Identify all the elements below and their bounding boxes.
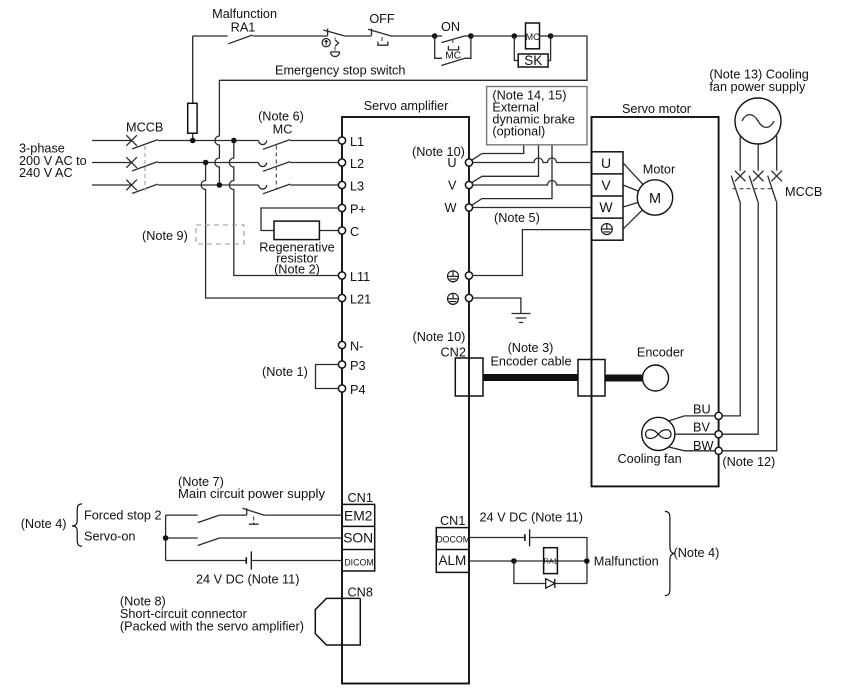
svg-text:MCCB: MCCB (785, 185, 822, 199)
label: (Note 7) Main circuit power supply (178, 475, 326, 501)
wire: dynamic brake tap W (472, 145, 552, 205)
terminal U (447, 156, 472, 170)
svg-text:ON: ON (441, 20, 460, 34)
svg-text:(Note 4): (Note 4) (674, 546, 720, 560)
wire: terminal block to motor (W) (623, 203, 638, 208)
svg-text:24 V DC (Note 11): 24 V DC (Note 11) (480, 510, 583, 524)
svg-text:(Note 9): (Note 9) (142, 229, 188, 243)
jumper P3-P4 (316, 365, 339, 389)
svg-text:(optional): (optional) (492, 125, 545, 139)
node: control return on L3 (217, 182, 223, 188)
svg-text:Cooling fan: Cooling fan (618, 452, 682, 466)
svg-text:MC: MC (445, 51, 461, 62)
wire (220, 514, 247, 516)
wire: DICOM from rail (166, 560, 247, 562)
wire: EM2 from rail (166, 514, 198, 516)
terminal N- (338, 340, 363, 354)
svg-text:(Note 2): (Note 2) (274, 262, 320, 276)
switch: forced stop contact (198, 515, 220, 523)
svg-text:V: V (601, 177, 611, 193)
battery 24 V DC (input side) (246, 551, 251, 569)
surge absorber SK (514, 36, 550, 68)
wire: V phase to motor (hops brake lead) (473, 181, 592, 186)
terminal L2 (338, 157, 364, 171)
node: L21 feed tap on L2 (203, 160, 209, 166)
connector: encoder cable junction (578, 360, 605, 397)
node: junction left of ON (432, 33, 438, 39)
node: junction right of MC coil (548, 33, 554, 39)
svg-text:Malfunction: Malfunction (212, 7, 277, 21)
terminal PE2 (amplifier) (448, 293, 473, 304)
node: L11 feed tap on L1 (231, 138, 237, 144)
terminal BU (693, 402, 722, 419)
svg-text:P4: P4 (350, 383, 366, 397)
terminal L3 (338, 180, 364, 194)
wire: input rail (165, 515, 167, 560)
contact MC (self-holding auxiliary) (435, 36, 471, 66)
circuit breaker MCCB pole 3 + wire (92, 184, 132, 186)
switch: servo-on contact (198, 538, 220, 546)
svg-text:W: W (445, 201, 457, 215)
svg-text:(Note 5): (Note 5) (494, 211, 540, 225)
wire: terminal block to motor (U) (623, 163, 643, 185)
terminal P3 (338, 359, 365, 373)
encoder cable (amplifier side) (483, 374, 578, 381)
wire: MC coil to right node (540, 35, 551, 37)
label: (Note 10) CN2 (413, 330, 466, 360)
svg-text:L2: L2 (350, 157, 364, 171)
wire: fan to BV (675, 433, 715, 435)
magnetic contactor MC pole 1 + wire to L1 (259, 141, 267, 145)
wire: L21 feed from L2 (hops L3) (201, 163, 342, 299)
wire: terminal block to motor (V) (623, 185, 639, 191)
brace (left group) (72, 504, 82, 546)
svg-text:L21: L21 (350, 293, 371, 307)
node: ALM branch left (511, 558, 517, 564)
motor M (637, 163, 676, 216)
svg-text:EM2: EM2 (344, 509, 372, 524)
wire: dynamic brake tap U (472, 145, 524, 160)
label: (Note 13) Cooling fan power supply (709, 68, 808, 95)
magnetic contactor MC pole 2 + wire to L2 (259, 163, 267, 167)
wire: ALM (469, 560, 587, 562)
brace (right group) (665, 511, 675, 595)
svg-text:Encoder: Encoder (637, 346, 685, 360)
svg-text:240 V AC: 240 V AC (19, 166, 73, 180)
motor terminal block (592, 152, 624, 240)
svg-text:W: W (599, 199, 613, 215)
wire: L11 feed from L1 (hops L2, L3) (229, 141, 342, 276)
svg-text:DOCOM: DOCOM (436, 535, 470, 545)
wire: DOCOM (469, 537, 525, 539)
terminal BW (693, 439, 722, 454)
wire: fan supply phase 2 (757, 144, 759, 171)
label: Malfunction RA1 (212, 7, 277, 34)
label: (Note 6) MC (258, 110, 304, 137)
forced stop button (NC) (243, 508, 265, 524)
svg-text:(Note 12): (Note 12) (722, 455, 775, 469)
terminal L21 (338, 293, 371, 307)
circuit breaker MCCB (fan) pole 3 (722, 171, 782, 451)
battery 24 V DC (output side) (525, 529, 530, 546)
svg-text:Motor: Motor (643, 163, 676, 177)
servo motor enclosure (592, 102, 719, 486)
encoder cable (motor side) (605, 375, 643, 382)
svg-text:RA1: RA1 (544, 559, 558, 566)
circuit breaker MCCB (fan) pole 2 (722, 171, 763, 435)
svg-text:BV: BV (693, 421, 710, 435)
svg-text:CN1: CN1 (348, 491, 373, 505)
diode (546, 579, 555, 588)
wire: fan to BW (669, 447, 715, 451)
emergency stop switch (322, 29, 344, 57)
wire: fan supply phase 3 (776, 136, 778, 171)
wire: to DICOM terminal (251, 560, 342, 562)
node: junction left of MC coil (512, 33, 518, 39)
circuit breaker MCCB pole 2 + wire (92, 162, 132, 164)
svg-text:SK: SK (524, 53, 542, 68)
ground (earth) (512, 314, 531, 323)
circuit breaker MCCB pole 1 + wire (92, 140, 132, 142)
svg-text:(Note 10): (Note 10) (413, 330, 466, 344)
svg-text:ALM: ALM (439, 553, 467, 568)
svg-text:P+: P+ (350, 203, 366, 217)
wire: DOCOM to malfunction node (530, 538, 587, 584)
fan MCCB pole link (dashed) (733, 188, 773, 190)
wire: RA1 to emergency stop switch (253, 35, 328, 37)
wire: dynamic brake tap V (472, 145, 539, 183)
svg-text:L1: L1 (350, 135, 364, 149)
connector CN1 (input) (342, 504, 375, 571)
connector CN2 (455, 358, 483, 396)
svg-text:N-: N- (350, 340, 363, 354)
terminal PE1 (amplifier) (448, 271, 473, 282)
svg-text:(Note 6): (Note 6) (258, 110, 304, 124)
terminal V (448, 179, 473, 193)
wire: control line from fuse branch to RA1 contact (193, 35, 228, 37)
node: junction right of ON (468, 33, 474, 39)
svg-text:(Note 3): (Note 3) (508, 341, 554, 355)
svg-text:MCCB: MCCB (126, 121, 163, 135)
MCCB pole link (dashed) (144, 146, 146, 191)
wire: terminal block to motor (PE) (623, 210, 642, 229)
svg-text:U: U (601, 155, 611, 171)
svg-text:fan power supply: fan power supply (709, 80, 806, 94)
svg-text:Encoder cable: Encoder cable (490, 355, 571, 369)
relay contact RA1 (228, 35, 252, 44)
terminal block PE symbol (601, 224, 612, 235)
servo amplifier enclosure (342, 99, 469, 684)
node: fuse tap on L1 (190, 138, 196, 144)
wire: fan supply phase 1 (739, 136, 741, 171)
connector CN1 (output) (436, 528, 470, 573)
terminal L11 (338, 270, 370, 284)
label: 3-phase 200 V AC to 240 V AC (19, 142, 87, 180)
svg-text:(Packed with the servo amplifi: (Packed with the servo amplifier) (120, 619, 304, 633)
svg-text:Forced stop 2: Forced stop 2 (84, 508, 162, 522)
cooling fan (618, 417, 682, 466)
svg-text:(Note 10): (Note 10) (412, 145, 465, 159)
terminal BV (693, 421, 722, 438)
wire: SON from rail (166, 537, 198, 539)
magnetic contactor MC pole 3 + wire to L3 (259, 185, 267, 189)
pushbutton OFF (NC) (368, 12, 395, 45)
wire: emergency stop to OFF button (344, 35, 372, 37)
wire: control return vertical (hops L1, L2, joins L3) (215, 80, 220, 185)
terminal W (445, 201, 473, 215)
svg-text:CN8: CN8 (348, 586, 373, 600)
svg-text:Emergency stop switch: Emergency stop switch (275, 64, 405, 78)
svg-text:RA1: RA1 (231, 20, 256, 34)
wire: PE2 to earth (473, 298, 521, 314)
svg-text:MC: MC (526, 32, 540, 42)
pushbutton ON (NO) (435, 20, 471, 50)
wire: to SON terminal (220, 537, 343, 539)
svg-text:Servo motor: Servo motor (622, 102, 692, 116)
svg-text:L11: L11 (350, 270, 370, 284)
svg-text:V: V (448, 179, 457, 193)
fuse (188, 36, 197, 141)
coil MC (contactor coil) (526, 23, 541, 49)
wire: diode to node (555, 583, 587, 585)
svg-text:MC: MC (273, 123, 293, 137)
svg-text:C: C (350, 225, 359, 239)
wire: to MC coil (471, 35, 526, 37)
node: SON rail junction (163, 535, 169, 541)
connector CN8 (short-circuit connector) (315, 598, 360, 645)
label: (Note 8) Short-circuit connector (120, 594, 304, 633)
svg-text:Main circuit power supply: Main circuit power supply (178, 487, 326, 501)
svg-text:(Note 4): (Note 4) (21, 517, 67, 531)
fan power supply (AC source) (735, 98, 781, 144)
svg-text:SON: SON (343, 530, 373, 545)
terminal P4 (338, 383, 365, 397)
svg-text:L3: L3 (350, 180, 364, 194)
terminal P+ (338, 203, 365, 217)
node: ALM branch right (584, 558, 590, 564)
svg-text:Malfunction: Malfunction (594, 555, 659, 569)
dashed box (Note 9) (196, 225, 244, 244)
wire: OFF to ON node (392, 35, 435, 37)
svg-text:Servo amplifier: Servo amplifier (364, 99, 449, 113)
wire: diode branch (514, 561, 546, 584)
svg-text:U: U (447, 156, 456, 170)
svg-text:M: M (649, 191, 661, 207)
wire: U phase to motor (hops brake leads) (473, 158, 592, 163)
wire: control return to L3 tap (219, 36, 587, 80)
svg-text:CN1: CN1 (440, 514, 465, 528)
wire: PE1 to motor earth terminal (473, 230, 592, 276)
wire: fan to BU (669, 416, 715, 421)
label: (Note 3) Encoder cable (490, 341, 571, 369)
svg-text:OFF: OFF (369, 12, 395, 26)
svg-text:BU: BU (693, 402, 711, 416)
wire: W phase to motor (473, 207, 592, 209)
svg-text:24 V DC (Note 11): 24 V DC (Note 11) (196, 573, 299, 587)
external dynamic brake box (487, 87, 587, 145)
terminal C (338, 225, 359, 239)
regenerative resistor (259, 208, 338, 276)
circuit breaker MCCB (fan) pole 1 (722, 171, 745, 416)
terminal L1 (338, 135, 364, 149)
svg-text:P3: P3 (350, 359, 366, 373)
svg-text:DICOM: DICOM (344, 557, 373, 567)
wire: to EM2 terminal (264, 514, 342, 516)
svg-text:Servo-on: Servo-on (84, 530, 135, 544)
MC pole link (dashed) (275, 146, 277, 191)
relay RA1 (544, 548, 558, 574)
encoder (637, 346, 685, 392)
svg-text:(Note 1): (Note 1) (262, 365, 308, 379)
